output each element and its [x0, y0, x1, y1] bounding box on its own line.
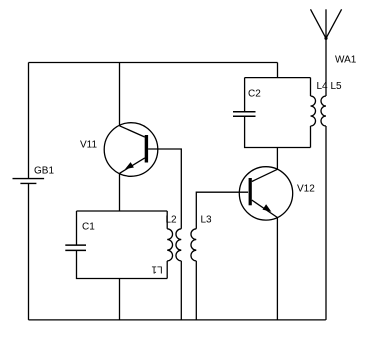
node antenna junction [324, 37, 327, 40]
wire top rail to C2 tank top [277, 63, 279, 78]
wire C1 tank loop right upper [166, 211, 168, 229]
wire C1 tank loop top edge [77, 210, 168, 212]
wire V11 emitter to C1 tank [119, 173, 121, 211]
inductor L3 [191, 229, 196, 261]
capacitor C2 [233, 112, 256, 117]
wire C1 tank loop right lower [166, 261, 168, 279]
antenna WA1 [311, 9, 342, 38]
svg-text:GB1: GB1 [34, 166, 54, 177]
svg-text:L1: L1 [151, 264, 163, 275]
battery GB1 [13, 179, 45, 184]
inductor L2 [176, 229, 181, 261]
wire V12 emitter to bottom rail [276, 218, 278, 320]
wire V12 collector to C2 tank bottom [276, 148, 278, 170]
wire C1 tank to bottom rail [119, 279, 121, 320]
wire C2 tank loop left lower and bottom edge [245, 116, 311, 147]
capacitor C1 [65, 245, 86, 250]
svg-text:C2: C2 [248, 89, 261, 100]
svg-text:V11: V11 [80, 140, 97, 151]
wire left supply (battery positive) [28, 63, 30, 179]
svg-text:C1: C1 [82, 222, 95, 233]
wire C2 tank loop right lower [310, 126, 312, 148]
inductor L1 [167, 229, 172, 261]
wire L3 to V12 base [196, 192, 248, 229]
wire L3 to bottom rail [195, 261, 197, 320]
transistor V11 [104, 123, 158, 177]
svg-text:L5: L5 [331, 81, 343, 92]
wire top supply rail [29, 62, 278, 64]
svg-text:V12: V12 [297, 184, 315, 195]
wire battery negative to bottom rail [28, 183, 30, 320]
wire C1 tank loop left upper [76, 211, 78, 245]
wire V11 collector [119, 63, 121, 126]
wire C2 tank loop top edge [245, 77, 311, 79]
wire C2 tank loop left upper [244, 78, 246, 112]
svg-text:WA1: WA1 [335, 55, 357, 66]
inductor L4 [311, 96, 316, 126]
wire bottom ground rail [29, 319, 326, 321]
wire C1 tank loop left lower and bottom edge [77, 250, 168, 278]
wire L5 to bottom rail [325, 126, 327, 320]
wire antenna lead down through L5 to bottom rail [325, 38, 327, 96]
wire V11 base to L2 [148, 149, 181, 229]
wire L2 to bottom rail [180, 261, 182, 320]
inductor L5 [321, 96, 326, 126]
wire C2 tank loop right upper [310, 78, 312, 96]
transistor V12 [239, 167, 292, 220]
svg-text:L3: L3 [201, 215, 213, 226]
